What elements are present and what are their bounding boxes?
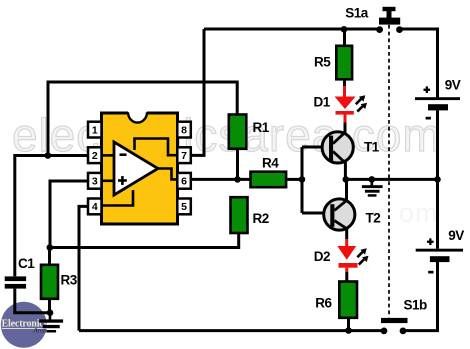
wire B1 to mid junction — [436, 110, 439, 179]
node R6 bottom junction — [345, 327, 352, 334]
wire mid junction to B2 — [436, 179, 439, 248]
svg-text:7: 7 — [181, 150, 187, 162]
wire R5 to D1 — [343, 79, 346, 97]
svg-text:R2: R2 — [253, 211, 269, 226]
wire pin2 to C1 — [15, 156, 89, 277]
svg-text:6: 6 — [181, 176, 187, 188]
svg-text:9V: 9V — [445, 78, 461, 93]
label B1 minus — [426, 117, 431, 120]
wire mid rail — [346, 178, 438, 181]
pin 8 — [177, 122, 191, 138]
svg-text:S1b: S1b — [404, 298, 428, 313]
wire R3 bottom — [48, 299, 51, 313]
wire S1a to battery top — [400, 29, 438, 98]
wire R3 top — [48, 248, 51, 265]
svg-text:9V: 9V — [448, 228, 464, 243]
node ground stub junction — [369, 176, 376, 183]
svg-text:R1: R1 — [253, 120, 270, 135]
wire base riser — [301, 147, 304, 213]
resistor R2 — [231, 197, 248, 233]
wire T2 base — [302, 212, 331, 215]
svg-text:5: 5 — [181, 201, 187, 213]
wire T2 to D2 — [345, 228, 348, 247]
label B2 minus — [428, 271, 433, 274]
label B2 plus — [427, 238, 434, 245]
wire pin7 riser — [191, 29, 204, 155]
wire T1 emitter down — [344, 162, 347, 180]
ground right — [362, 179, 383, 196]
svg-text:2: 2 — [92, 150, 98, 162]
wire B2 to bottom rail — [403, 262, 438, 331]
svg-text:R6: R6 — [315, 296, 332, 311]
capacitor C1 — [5, 276, 26, 288]
op-amp U1 body — [102, 111, 178, 224]
node pin2 junction — [45, 152, 52, 159]
wire R1 bottom — [236, 149, 239, 180]
battery B1 9V — [415, 97, 460, 110]
pin 4 — [88, 199, 102, 215]
pin 7 — [177, 147, 191, 163]
wire midpoint to T2 — [345, 179, 348, 201]
svg-text:4: 4 — [92, 201, 98, 213]
op-amp internal wire pin2 stub — [103, 154, 114, 157]
pin 1 — [88, 122, 102, 138]
svg-text:1: 1 — [92, 124, 98, 136]
node base drive junction — [299, 176, 306, 183]
wire pin4 loop — [79, 206, 89, 330]
wire D2 to R6 — [345, 272, 348, 282]
transistor T2 — [324, 199, 355, 230]
D2 light arrows — [357, 248, 368, 264]
ground left — [39, 313, 63, 333]
svg-text:R4: R4 — [262, 156, 279, 171]
node R1 R2 output junction — [234, 176, 241, 183]
resistor R3 — [41, 265, 58, 299]
resistor R1 — [229, 115, 247, 149]
D1 light arrows — [356, 95, 367, 111]
resistor R4 — [251, 172, 287, 188]
LED D1 — [335, 97, 356, 123]
resistor R6 — [339, 282, 357, 318]
wire bottom rail — [79, 329, 384, 332]
svg-text:D1: D1 — [314, 95, 331, 110]
transistor T1 — [322, 132, 353, 163]
wire left feedback loop — [48, 82, 237, 156]
resistor R5 — [336, 46, 352, 80]
pin 6 — [177, 173, 191, 189]
wire R2 bottom to divider rail — [50, 233, 239, 248]
op-amp internal wire output link — [156, 169, 177, 180]
switch S1b — [381, 318, 408, 334]
node battery mid junction — [434, 176, 441, 183]
wire pin6 to R4 — [191, 178, 251, 181]
node C1 R3 ground junction — [47, 309, 54, 316]
dashed gang link S1a-S1b — [388, 25, 390, 318]
svg-text:C1: C1 — [18, 256, 35, 271]
LED D2 — [337, 246, 357, 272]
svg-text:T2: T2 — [366, 211, 381, 226]
wire pin3 drop — [50, 181, 89, 248]
svg-text:R3: R3 — [61, 273, 78, 288]
node R3 top junction — [47, 244, 54, 251]
op-amp internal wire pin7 link — [135, 139, 178, 156]
svg-text:T1: T1 — [364, 140, 380, 155]
svg-text:om: om — [399, 198, 439, 228]
node emitter midpoint junction — [343, 176, 350, 183]
op-amp triangle — [114, 142, 158, 195]
wire D1 to T1 — [344, 123, 347, 135]
wire top rail — [204, 28, 380, 31]
op-amp internal wire pin4 link — [103, 190, 133, 206]
node R5 top junction — [341, 26, 348, 33]
battery B2 9V — [416, 249, 463, 262]
op-amp minus input mark — [120, 153, 127, 156]
pin 5 — [177, 199, 191, 215]
wire C1 bottom to R3 node — [15, 289, 50, 313]
wire R5 top — [343, 29, 346, 46]
svg-text:D2: D2 — [314, 249, 330, 264]
svg-text:3: 3 — [92, 176, 98, 188]
svg-text:S1a: S1a — [345, 6, 369, 21]
pin 2 — [88, 147, 102, 163]
wire R6 bottom — [347, 318, 350, 331]
svg-text:R5: R5 — [314, 55, 331, 70]
wire R4 right — [286, 178, 302, 181]
wire T1 base — [302, 146, 329, 149]
pin 3 — [88, 173, 102, 189]
switch S1a — [376, 7, 403, 33]
op-amp plus input mark — [118, 176, 127, 185]
label B1 plus — [424, 86, 431, 93]
op-amp internal wire pin3 stub — [103, 180, 114, 183]
svg-text:8: 8 — [181, 124, 187, 136]
